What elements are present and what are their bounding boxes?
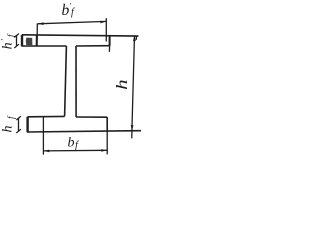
bottom flange top edge right — [76, 116, 107, 118]
bottom flange left edge — [26, 117, 28, 132]
b'f left extension line — [36, 24, 38, 36]
beam top edge with h extension — [22, 35, 139, 36]
top flange bottom edge left — [21, 45, 66, 47]
top flange right edge — [109, 36, 111, 46]
label h'f (left top, rotated) — [0, 33, 16, 49]
bottom flange top edge left — [28, 115, 65, 117]
top flange left edge — [21, 35, 23, 46]
bottom flange right edge — [106, 117, 108, 131]
h bottom arrow — [131, 125, 134, 131]
b'f right arrow — [100, 21, 106, 24]
hf tick dimension line — [18, 118, 20, 132]
bf right extension line — [106, 131, 108, 154]
b'f dimension line — [37, 21, 106, 23]
h top arrow — [133, 35, 136, 41]
beam bottom edge with h extension — [27, 131, 141, 132]
web right edge — [75, 46, 77, 117]
b'f left arrow — [38, 22, 44, 25]
label h (right, rotated) — [113, 79, 130, 89]
h dim line overshoot below bottom edge — [131, 131, 133, 139]
h dimension line — [132, 35, 135, 131]
h'f bottom tick slash — [14, 44, 19, 48]
top flange bottom edge right — [76, 45, 110, 47]
h'f top tick slash — [14, 34, 19, 38]
hf top tick slash — [16, 116, 21, 120]
h'f tick dimension line — [16, 35, 18, 46]
bf right arrow — [101, 149, 107, 152]
label hf (left bottom, rotated) — [1, 115, 17, 133]
svg-text:h: h — [113, 79, 130, 89]
h extension end hook (top right) — [135, 36, 137, 40]
top flange right edge overshoot stub — [108, 46, 110, 52]
web left edge — [65, 46, 67, 116]
bf left extension line — [42, 117, 44, 155]
bf dimension line — [43, 149, 107, 152]
b'f right extension line — [105, 18, 107, 41]
bf left arrow — [44, 150, 50, 153]
hf bottom tick slash — [16, 129, 21, 133]
scan smudge in top flange left interior — [26, 38, 33, 46]
